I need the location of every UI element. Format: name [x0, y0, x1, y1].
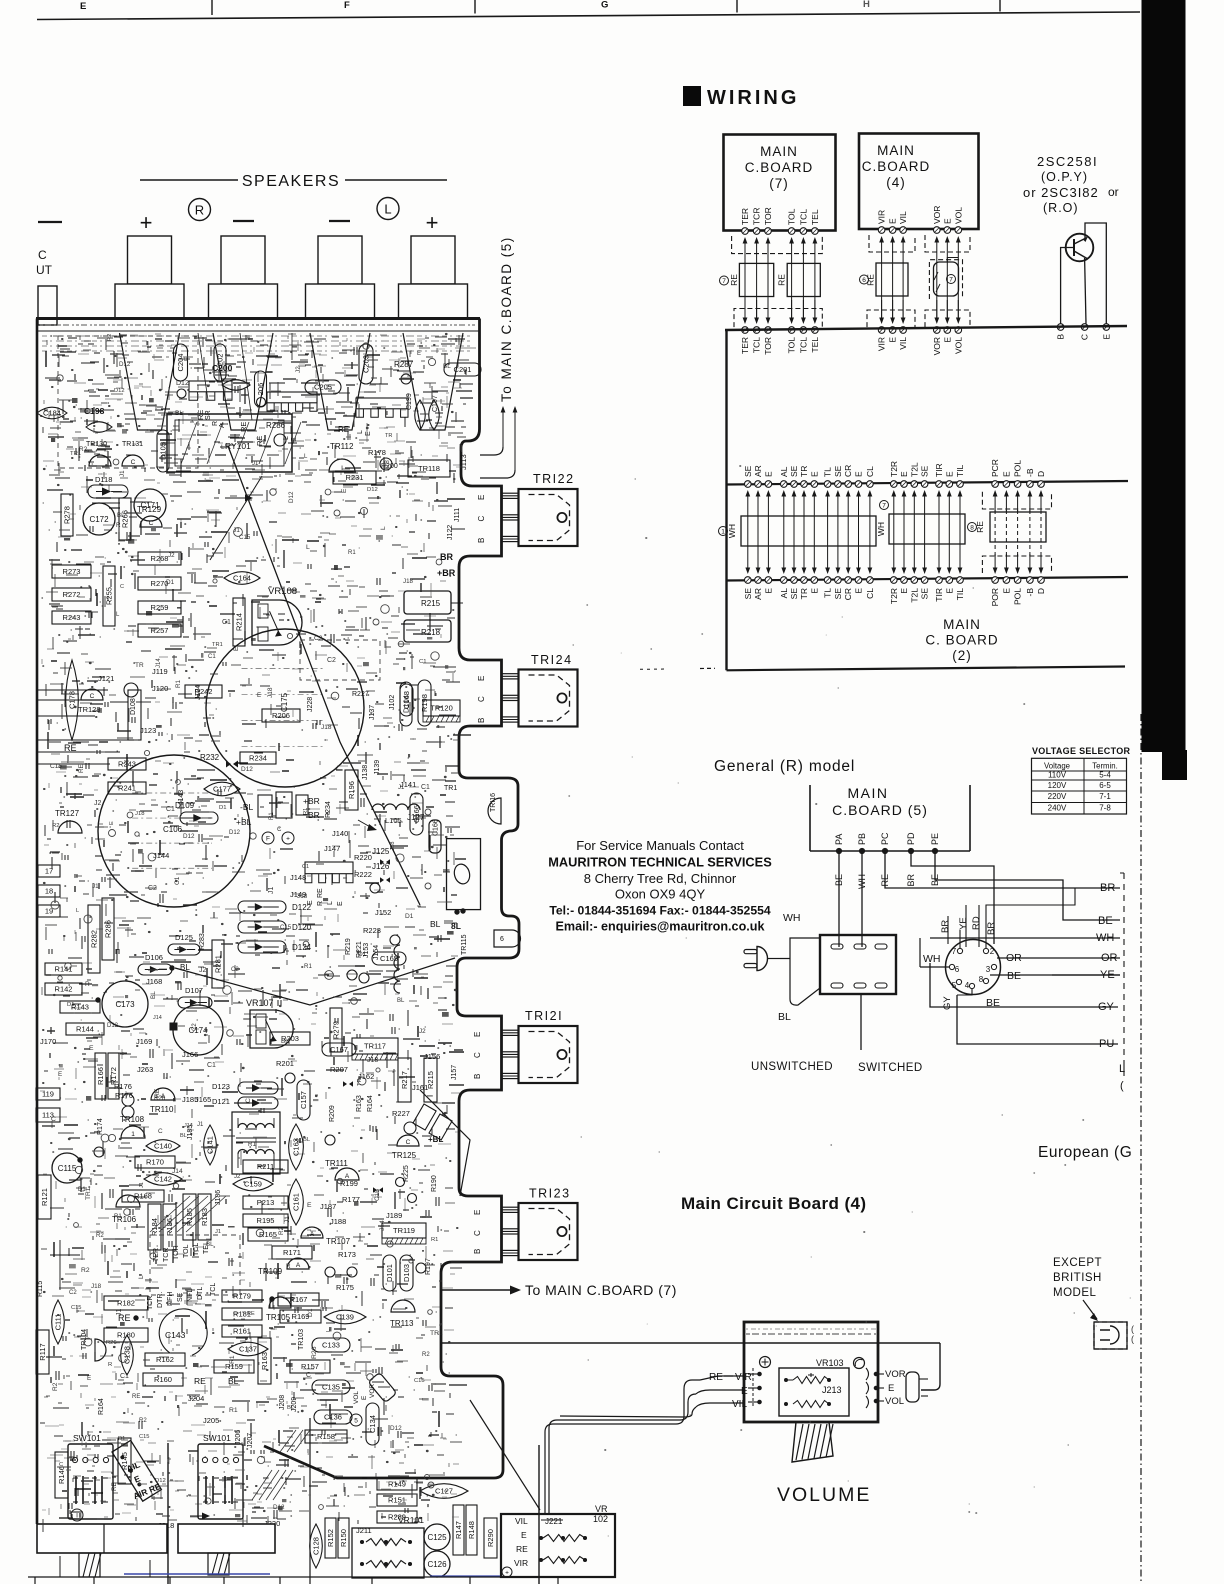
wire run down left — [50, 1240, 80, 1290]
svg-text:YE: YE — [958, 917, 969, 930]
capacitor C142 — [144, 1173, 182, 1186]
svg-text:TCL: TCL — [798, 209, 808, 225]
wire harness row dashed — [1040, 510, 1042, 556]
svg-text:BE: BE — [1007, 970, 1021, 982]
svg-text:E: E — [942, 218, 952, 224]
svg-text:5: 5 — [952, 981, 957, 990]
svg-text:B: B — [473, 1249, 482, 1254]
volume left pins — [748, 1373, 758, 1375]
svg-text:J139: J139 — [374, 760, 381, 775]
capacitor C126 — [424, 1551, 450, 1577]
svg-text:120V: 120V — [1048, 781, 1067, 790]
capacitor C134 — [366, 1403, 379, 1445]
svg-text:240V: 240V — [1048, 804, 1067, 813]
capacitor C172 — [83, 503, 115, 535]
svg-text:C: C — [477, 696, 486, 702]
svg-text:TR128: TR128 — [78, 705, 101, 714]
resistor R145 — [118, 1438, 131, 1484]
pcb board outline left edge — [36, 319, 39, 1525]
node — [401, 374, 411, 384]
svg-text:OR: OR — [1006, 952, 1022, 964]
block MAIN C.BOARD (2) bottom edge — [727, 667, 1126, 671]
svg-text:TRI22: TRI22 — [533, 472, 575, 486]
resistor R214 — [233, 598, 245, 646]
trimmer block VR101 — [352, 1528, 424, 1578]
svg-text:C: C — [38, 248, 47, 262]
capacitor C205 — [305, 380, 341, 394]
svg-text:E: E — [521, 1530, 527, 1540]
svg-text:E: E — [307, 1202, 312, 1209]
svg-text:Oxon OX9 4QY: Oxon OX9 4QY — [615, 887, 706, 902]
rotary pin 7 — [957, 948, 962, 953]
svg-text:TOL: TOL — [183, 1244, 190, 1258]
svg-text:TR1: TR1 — [229, 1355, 236, 1368]
svg-text:E: E — [1001, 471, 1011, 477]
resistor R144 — [66, 1023, 104, 1035]
scan artifact black bar — [1142, 0, 1186, 752]
wire harness row — [938, 495, 940, 530]
pin TEL bus — [812, 327, 819, 334]
svg-text:-B: -B — [1025, 588, 1035, 597]
svg-text:TIL: TIL — [955, 464, 965, 477]
wire board4 harness — [892, 241, 894, 321]
svg-text:(: ( — [1120, 1080, 1124, 1092]
svg-text:TER: TER — [740, 337, 750, 354]
wire harness row — [767, 495, 769, 530]
svg-text:R2: R2 — [96, 1232, 104, 1239]
svg-text:C1: C1 — [166, 806, 175, 813]
block MAIN C.BOARD (7) — [724, 135, 836, 231]
wire board4 harness — [902, 241, 904, 321]
svg-text:R162: R162 — [156, 1355, 174, 1364]
svg-text:E: E — [361, 1395, 368, 1400]
pin AR row upper — [755, 481, 762, 488]
svg-text:BL: BL — [180, 1133, 187, 1139]
pin TIL row lower — [957, 577, 964, 584]
wire arrow down TOL — [791, 300, 793, 319]
capacitor C201 — [444, 363, 481, 376]
svg-text:C199: C199 — [406, 393, 413, 410]
resistor R169 — [280, 1310, 321, 1323]
svg-text:E: E — [337, 901, 344, 906]
svg-text:PC: PC — [880, 832, 890, 845]
circled 6 — [860, 275, 869, 284]
capacitor C135 — [312, 1380, 350, 1394]
capacitor D104 — [400, 682, 412, 726]
wire arrow down VOL — [957, 300, 959, 319]
svg-text:J170: J170 — [40, 1037, 56, 1046]
svg-text:VIL: VIL — [898, 337, 908, 350]
svg-text:R268: R268 — [151, 554, 169, 563]
svg-text:Tel:- 01844-351694 Fax:- 01844: Tel:- 01844-351694 Fax:- 01844-352554 — [549, 904, 771, 918]
pcb board bottom-right edge — [264, 1446, 503, 1478]
svg-text:UT: UT — [36, 263, 53, 277]
svg-text:R198: R198 — [420, 694, 429, 712]
svg-text:C141: C141 — [206, 1136, 215, 1154]
node — [124, 683, 138, 697]
svg-text:TR120: TR120 — [430, 704, 453, 713]
svg-text:TIR: TIR — [934, 463, 944, 477]
svg-text:MAIN: MAIN — [848, 785, 889, 801]
inductor L105 — [372, 804, 420, 810]
svg-text:WH: WH — [727, 524, 737, 538]
svg-text:J2: J2 — [419, 1028, 426, 1035]
node — [390, 935, 400, 945]
inductor — [394, 945, 400, 993]
svg-text:R2: R2 — [422, 1352, 430, 1358]
svg-text:J2: J2 — [199, 967, 207, 974]
pin VIR bus — [878, 327, 885, 334]
connector housing dashed board7 upper — [732, 236, 823, 254]
pointer arrows — [225, 497, 247, 499]
resistor R266 — [119, 498, 131, 540]
wire OR right — [997, 957, 1120, 959]
svg-text:C177: C177 — [213, 785, 231, 794]
svg-text:C: C — [51, 1116, 56, 1123]
capacitor C163 — [289, 1124, 304, 1170]
svg-text:C: C — [59, 1462, 63, 1468]
pin E row upper — [946, 481, 953, 488]
svg-text:R279: R279 — [332, 1021, 341, 1039]
svg-text:J137: J137 — [369, 705, 376, 720]
svg-text:R227: R227 — [352, 691, 369, 698]
svg-text:R217: R217 — [400, 1071, 409, 1089]
svg-text:VOLUME: VOLUME — [777, 1484, 871, 1506]
svg-text:E: E — [741, 1386, 748, 1397]
pin E row lower — [1003, 577, 1010, 584]
wire BE from PA — [838, 851, 840, 947]
svg-text:WH: WH — [1096, 932, 1114, 944]
wire re run — [37, 715, 95, 717]
wire down to bottom 1 — [167, 1443, 169, 1584]
transistor outline — [269, 1297, 291, 1308]
svg-text:D12: D12 — [114, 388, 125, 394]
node — [94, 1147, 104, 1157]
svg-text:VOL: VOL — [885, 1396, 904, 1407]
resistor R163 — [258, 1338, 271, 1384]
capacitor — [222, 380, 250, 391]
connector housing dashed board4 lower — [867, 310, 915, 327]
node — [274, 434, 286, 446]
node — [347, 970, 357, 980]
svg-text:BL: BL — [175, 410, 183, 417]
svg-text:C: C — [473, 1230, 482, 1236]
border frame top rule — [37, 12, 1140, 20]
speaker terminal post 1 — [128, 236, 172, 284]
node — [177, 389, 186, 398]
svg-text:SE: SE — [833, 465, 843, 477]
svg-text:R160: R160 — [154, 1375, 172, 1384]
hatch zone sw101 — [280, 1430, 296, 1452]
rotary pin 6 — [949, 964, 954, 969]
resistor R203 — [270, 1032, 310, 1045]
resistor R279 — [330, 1008, 342, 1052]
svg-text:C: C — [90, 693, 95, 700]
svg-text:SE: SE — [789, 588, 799, 600]
svg-text:D1: D1 — [358, 951, 367, 958]
svg-text:C.BOARD: C.BOARD — [862, 159, 931, 174]
svg-text:R186: R186 — [165, 1218, 174, 1236]
cable tie bracket group2 — [889, 514, 965, 544]
svg-text:C: C — [277, 826, 282, 833]
resistor R186 — [163, 1204, 176, 1250]
wire WH from PB — [861, 851, 863, 947]
pin VOR board4 — [934, 227, 941, 234]
circled 7 — [720, 276, 729, 285]
wire arrow down TOR — [767, 300, 769, 319]
svg-text:MAURITRON TECHNICAL SERVICES: MAURITRON TECHNICAL SERVICES — [548, 855, 772, 870]
wire harness row — [913, 495, 915, 530]
resistor R215 — [404, 591, 451, 614]
svg-text:6-5: 6-5 — [1099, 781, 1111, 790]
wire harness row dashed — [1005, 510, 1007, 556]
wire BE from PE — [935, 851, 1120, 920]
svg-text:BR: BR — [1100, 882, 1115, 894]
svg-text:TIR: TIR — [934, 588, 944, 602]
svg-text:R182: R182 — [117, 1299, 135, 1308]
svg-text:TR110: TR110 — [150, 1105, 174, 1114]
svg-text:R148: R148 — [467, 1521, 476, 1539]
resistor R167 — [278, 1293, 319, 1306]
svg-text:TR125: TR125 — [392, 1151, 417, 1160]
svg-text:-B: -B — [1025, 468, 1035, 477]
pin SE row lower — [921, 577, 928, 584]
svg-text:SE: SE — [833, 588, 843, 600]
svg-text:(4): (4) — [886, 175, 906, 190]
resistor R170 — [135, 1156, 175, 1168]
svg-text:D1: D1 — [67, 1002, 75, 1008]
svg-text:C2: C2 — [314, 635, 323, 642]
circled 7 — [947, 275, 956, 284]
svg-text:VOR: VOR — [932, 206, 942, 224]
capacitor — [415, 400, 426, 430]
pin TOR board7 — [765, 228, 772, 235]
wire arrow down VIR — [881, 300, 883, 319]
node — [285, 1073, 295, 1083]
wire bus horizontal left — [37, 740, 130, 764]
wire board7 harness — [791, 242, 793, 321]
pin PD board5 — [908, 848, 913, 853]
block volume unit VR103 — [744, 1322, 878, 1422]
trace fan terminal 4 — [403, 333, 463, 430]
svg-text:J1: J1 — [252, 461, 259, 467]
svg-text:BL: BL — [206, 1241, 214, 1248]
svg-text:C135: C135 — [322, 1383, 340, 1392]
capacitor C157 — [297, 1080, 310, 1120]
svg-text:VIL: VIL — [732, 1399, 747, 1410]
wire harness row — [903, 495, 905, 530]
svg-text:J18: J18 — [403, 578, 414, 585]
diode — [178, 997, 212, 1008]
svg-text:R166: R166 — [96, 1067, 105, 1085]
svg-text:R290: R290 — [486, 1529, 495, 1547]
transistor Q1 2SC2581 — [1066, 234, 1094, 262]
wire to main c.board 7 — [441, 1289, 512, 1291]
svg-text:(R.O): (R.O) — [1043, 201, 1079, 215]
svg-text:VIR: VIR — [514, 1558, 528, 1568]
pin CL row upper — [867, 481, 874, 488]
transistor outline — [95, 1339, 106, 1361]
hatched block 2 — [208, 1553, 229, 1575]
wire harness row dashed — [994, 510, 996, 556]
svg-text:E: E — [109, 821, 115, 825]
svg-text:D12: D12 — [176, 380, 189, 387]
resistor 119 — [36, 1088, 60, 1100]
diode — [238, 941, 286, 953]
svg-text:18: 18 — [45, 887, 53, 896]
pin CL row lower — [867, 577, 874, 584]
svg-text:C15: C15 — [374, 1189, 381, 1201]
transistor outline — [335, 1168, 359, 1180]
capacitor volume — [906, 1372, 919, 1402]
arrow except british model — [1083, 1300, 1097, 1319]
svg-text:PE: PE — [930, 833, 940, 845]
svg-text:R214: R214 — [235, 613, 244, 631]
svg-text:J263: J263 — [137, 1065, 153, 1074]
circled mark — [282, 832, 294, 844]
circled mark — [71, 1509, 83, 1521]
svg-text:PU: PU — [1099, 1038, 1114, 1050]
svg-text:R171: R171 — [283, 1248, 301, 1257]
svg-text:J168: J168 — [146, 977, 162, 986]
bottom partial boxes — [59, 1556, 61, 1577]
svg-text:+BR: +BR — [437, 568, 456, 578]
wire volume feed — [442, 1342, 940, 1344]
wire BL plug — [790, 959, 820, 1006]
svg-text:R147: R147 — [454, 1521, 463, 1539]
svg-text:C1: C1 — [189, 1394, 197, 1401]
rotary pin 4 — [969, 983, 974, 988]
svg-text:OR: OR — [1101, 952, 1118, 964]
svg-text:E: E — [854, 471, 864, 477]
transistor outline — [58, 821, 82, 833]
svg-text:C15: C15 — [280, 924, 292, 931]
capacitor C128 — [310, 1524, 323, 1568]
wire down volume vr103 — [309, 1418, 311, 1584]
screw right — [854, 1358, 865, 1369]
resistor 17 — [38, 865, 60, 877]
resistor R143 — [60, 1001, 100, 1013]
svg-text:CL: CL — [865, 588, 875, 599]
svg-text:SE: SE — [743, 465, 753, 477]
svg-text:J208: J208 — [279, 1395, 286, 1410]
component pad — [128, 690, 141, 740]
svg-text:R142: R142 — [55, 985, 73, 994]
volume right pins — [866, 1368, 869, 1380]
resistor R243 — [52, 611, 91, 624]
wire harness row — [747, 495, 749, 530]
svg-text:EXCEPT: EXCEPT — [1053, 1257, 1102, 1269]
svg-text:BL: BL — [303, 1137, 311, 1143]
pin AL row upper — [781, 481, 788, 488]
diode — [180, 812, 218, 824]
svg-text:TR1: TR1 — [444, 785, 457, 792]
pin E bus — [944, 327, 951, 334]
svg-text:TCL: TCL — [752, 337, 762, 353]
svg-text:MAIN: MAIN — [877, 143, 915, 158]
wire to main c.board 5 arrow b — [514, 411, 516, 470]
svg-text:RE: RE — [709, 1372, 723, 1383]
wire speakers dash right — [345, 179, 447, 181]
pin TOL bus — [788, 327, 795, 334]
svg-text:E: E — [477, 676, 486, 681]
cable tie bracket group3 — [990, 512, 1046, 542]
svg-text:TR111: TR111 — [325, 1159, 348, 1168]
cable tie bracket group1 — [741, 516, 876, 546]
svg-text:J14: J14 — [153, 1015, 162, 1021]
svg-text:R: R — [212, 421, 219, 426]
svg-text:D12: D12 — [367, 487, 378, 493]
resistor R141 — [45, 963, 82, 975]
resistor R159 — [214, 1360, 254, 1373]
svg-text:TOR: TOR — [173, 1245, 180, 1260]
svg-text:6: 6 — [500, 936, 504, 943]
svg-text:BR: BR — [308, 810, 320, 820]
svg-text:L: L — [306, 544, 310, 551]
wire harness row — [827, 495, 829, 530]
resistor R161 — [222, 1325, 262, 1337]
node — [347, 1267, 357, 1277]
svg-text:7-1: 7-1 — [1099, 792, 1111, 801]
capacitor C167 — [322, 1043, 356, 1056]
svg-text:C128: C128 — [312, 1537, 321, 1555]
svg-text:VIL: VIL — [515, 1516, 528, 1526]
svg-text:C2: C2 — [69, 1290, 77, 1296]
pcb board top edge — [36, 317, 480, 320]
svg-text:R: R — [108, 1362, 112, 1368]
svg-text:R234: R234 — [325, 801, 332, 818]
relay RY101 — [167, 414, 292, 472]
svg-text:BL: BL — [778, 1011, 791, 1023]
svg-text:7: 7 — [952, 947, 957, 956]
node — [380, 458, 392, 470]
svg-text:VOL: VOL — [953, 337, 963, 354]
svg-text:VIL: VIL — [898, 211, 908, 224]
svg-text:J148: J148 — [290, 873, 306, 882]
pin D row upper — [1038, 481, 1045, 488]
svg-text:R173: R173 — [338, 1250, 356, 1259]
svg-text:R144: R144 — [76, 1025, 94, 1034]
svg-text:(O.P.Y): (O.P.Y) — [1041, 170, 1088, 184]
hatch zone bottom mid — [252, 1470, 272, 1500]
svg-text:D108: D108 — [130, 698, 137, 715]
svg-text:C15: C15 — [71, 1305, 81, 1311]
rotary pin 2 — [983, 948, 988, 953]
svg-text:J113: J113 — [459, 454, 468, 470]
plug body — [934, 262, 959, 296]
svg-text:TEL: TEL — [810, 337, 820, 353]
block MAIN C.BOARD (2) left edge — [725, 330, 727, 670]
speaker terminal post 2 — [221, 236, 265, 284]
connector comb — [189, 381, 232, 392]
svg-text:D12: D12 — [183, 833, 195, 840]
svg-text:J2: J2 — [123, 760, 129, 766]
svg-text:L: L — [103, 990, 109, 993]
wire bl diagonal 2 — [420, 1090, 470, 1196]
svg-text:C1: C1 — [302, 864, 309, 870]
svg-text:R2: R2 — [52, 823, 60, 829]
diode pack — [429, 1114, 452, 1140]
svg-text:J157: J157 — [451, 1065, 458, 1080]
transistor outline — [81, 689, 103, 700]
svg-text:D1: D1 — [307, 1308, 314, 1317]
svg-text:E: E — [477, 495, 486, 500]
resistor R162 — [145, 1353, 185, 1366]
svg-text:R164: R164 — [367, 1095, 374, 1112]
svg-text:R115: R115 — [37, 1281, 44, 1297]
svg-text:R26: R26 — [106, 1340, 117, 1346]
svg-text:BR: BR — [906, 874, 916, 887]
